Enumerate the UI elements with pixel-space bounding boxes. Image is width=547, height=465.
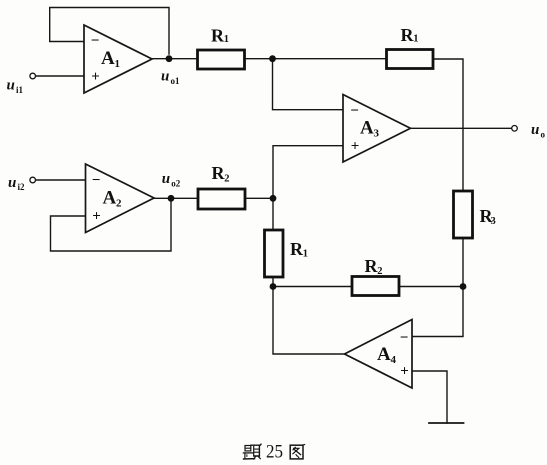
svg-text:A: A (360, 118, 374, 139)
svg-text:u: u (531, 122, 539, 138)
svg-text:2: 2 (224, 174, 229, 185)
svg-text:o2: o2 (171, 179, 181, 189)
svg-text:−: − (92, 173, 101, 189)
svg-text:A: A (377, 344, 391, 365)
svg-text:o: o (541, 130, 546, 140)
svg-text:−: − (350, 103, 359, 119)
svg-text:4: 4 (391, 354, 397, 366)
svg-text:A: A (101, 48, 115, 69)
svg-text:−: − (91, 33, 100, 49)
svg-text:25: 25 (266, 443, 283, 463)
svg-text:+: + (91, 69, 100, 85)
svg-text:3: 3 (491, 216, 496, 227)
svg-text:+: + (400, 364, 409, 380)
svg-text:o1: o1 (171, 76, 181, 86)
svg-text:1: 1 (224, 34, 229, 45)
svg-text:i1: i1 (16, 85, 24, 95)
svg-text:1: 1 (115, 58, 121, 70)
svg-text:1: 1 (413, 34, 418, 45)
svg-text:A: A (103, 188, 117, 209)
svg-text:u: u (8, 175, 16, 191)
svg-text:2: 2 (377, 266, 382, 277)
svg-text:i2: i2 (18, 182, 26, 192)
svg-text:u: u (7, 78, 15, 94)
svg-text:3: 3 (374, 128, 380, 140)
svg-text:+: + (351, 139, 360, 155)
svg-text:1: 1 (303, 249, 308, 260)
svg-text:−: − (400, 330, 409, 346)
svg-text:u: u (161, 68, 169, 84)
svg-text:2: 2 (116, 198, 122, 210)
svg-text:+: + (92, 209, 101, 225)
svg-text:u: u (162, 171, 170, 187)
